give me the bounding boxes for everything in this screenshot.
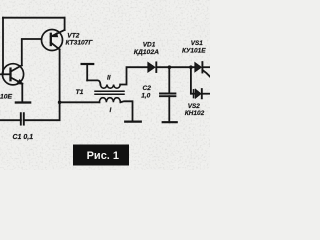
wire: VT1 collector up to VT2 base bbox=[22, 39, 42, 65]
ground bar: winding II bbox=[86, 64, 88, 80]
dinistor VS2 (KN102) bbox=[191, 67, 210, 98]
wire: bottom wire left of C1 bbox=[0, 119, 21, 121]
svg-text:I: I bbox=[110, 107, 112, 114]
svg-text:II: II bbox=[107, 74, 111, 81]
svg-text:С1 0,1: С1 0,1 bbox=[13, 134, 34, 141]
svg-text:10Е: 10Е bbox=[0, 93, 13, 100]
caption box: Рис. 1 bbox=[73, 145, 129, 166]
wire: top supply rail bbox=[3, 17, 65, 19]
svg-text:1,0: 1,0 bbox=[141, 93, 150, 100]
transformer T1 bbox=[60, 64, 141, 122]
svg-text:КН102: КН102 bbox=[185, 110, 205, 117]
node: VT2 collector / winding I junction bbox=[58, 101, 62, 105]
transistor VT2 (KT3107G, PNP) bbox=[42, 30, 65, 51]
wire: winding I right lead bbox=[120, 101, 132, 121]
wire: winding II right lead up to top wire bbox=[120, 67, 148, 84]
winding II (secondary) bbox=[100, 85, 120, 89]
winding I (primary) bbox=[60, 101, 100, 103]
svg-text:VS1: VS1 bbox=[191, 40, 204, 47]
wire: winding II left lead bbox=[87, 80, 100, 84]
capacitor C2 bbox=[160, 67, 177, 122]
wire: top wire VD1 to VS1 bbox=[156, 66, 195, 68]
ground bar: VT1 emitter bbox=[16, 101, 30, 103]
svg-text:С2: С2 bbox=[143, 85, 152, 92]
svg-text:КТ3107Г: КТ3107Г bbox=[66, 39, 94, 46]
wire: VT2 collector down to bottom wire bbox=[24, 49, 60, 120]
diode VD1 (KD102A) bbox=[148, 62, 156, 72]
ground bar: winding I bbox=[125, 120, 141, 122]
ground bar: C2 bbox=[163, 121, 177, 123]
thyristor VS1 (KU101E) bbox=[195, 62, 210, 77]
svg-text:КД102А: КД102А bbox=[134, 49, 159, 56]
svg-text:Т1: Т1 bbox=[76, 89, 84, 96]
wire: VT2 emitter up to rail bbox=[64, 18, 66, 30]
wire: left vertical rail bbox=[2, 18, 4, 75]
core bbox=[95, 90, 124, 92]
node: VS2 branch junction bbox=[189, 65, 193, 69]
capacitor C1 bbox=[21, 113, 24, 124]
transistor VT1 (KT3102E, NPN) bbox=[2, 64, 23, 85]
wire: VT1 emitter down bbox=[21, 84, 23, 103]
node: C2 junction bbox=[168, 65, 172, 69]
wire: VT1 base lead bbox=[0, 73, 11, 75]
svg-text:КУ101Е: КУ101Е bbox=[182, 47, 206, 54]
svg-text:Рис. 1: Рис. 1 bbox=[87, 150, 119, 162]
paper background bbox=[0, 0, 210, 170]
svg-text:VD1: VD1 bbox=[143, 42, 156, 49]
